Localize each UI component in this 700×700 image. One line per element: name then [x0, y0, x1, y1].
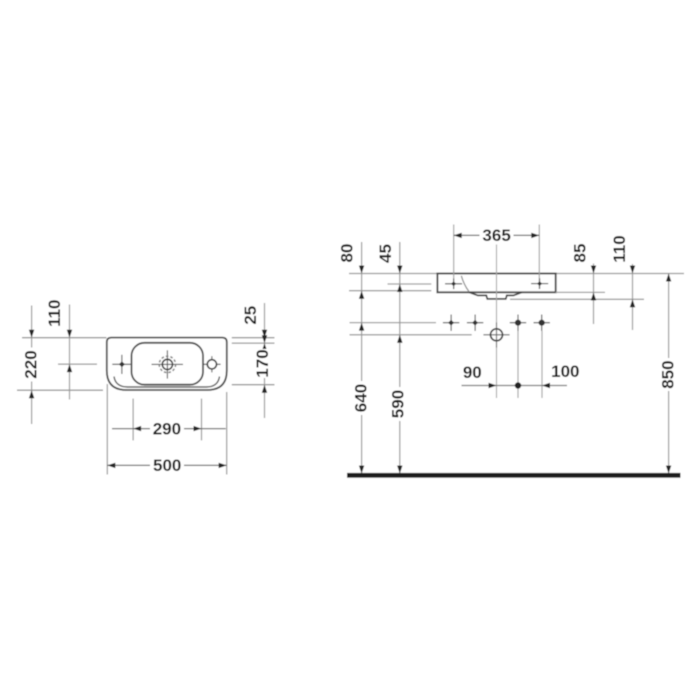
- svg-text:25: 25: [241, 306, 260, 325]
- svg-text:290: 290: [153, 419, 181, 438]
- fixing crosshair 1 row: [443, 315, 459, 331]
- svg-text:590: 590: [389, 390, 408, 418]
- fixing crosshair 3 row with dot: [510, 315, 526, 331]
- wire extension line y=284: [388, 283, 432, 285]
- dimension 85 line: [571, 244, 597, 324]
- dimension 25 and 170 line: [241, 303, 272, 418]
- dimension 290: [112, 399, 226, 441]
- dimension 90 and 100: [462, 362, 580, 388]
- left fixing mark plan: [112, 355, 131, 374]
- dimension 365: [454, 226, 540, 245]
- sink front edge inner parallel line: [114, 377, 220, 388]
- basin inner rounded rectangle: [132, 343, 204, 385]
- floor line: [347, 473, 681, 478]
- wire extension vertical left from 365 dim: [453, 225, 455, 290]
- dimension 80 and 640 line: [337, 242, 370, 474]
- svg-text:45: 45: [376, 244, 395, 263]
- wire extension vertical below crosshair 4: [541, 331, 543, 398]
- wire extension line right of body y=292.4: [556, 291, 605, 293]
- fixing crosshair 2 row: [467, 315, 483, 331]
- svg-text:500: 500: [153, 456, 181, 475]
- svg-text:110: 110: [45, 299, 64, 326]
- wire extension vertical below crosshair 3: [517, 331, 519, 398]
- svg-text:170: 170: [253, 349, 272, 377]
- wire extension line bowl bottom y=299.3: [510, 298, 644, 300]
- wire extension line right of plan y=385: [232, 384, 275, 386]
- sink body elevation rectangle: [437, 274, 555, 293]
- dimension 45 and 590 line: [376, 242, 408, 474]
- fixing crosshair 4 row with dot: [534, 315, 550, 331]
- svg-text:85: 85: [571, 244, 590, 263]
- drain bowl under body: [469, 292, 522, 299]
- basin hidden diagonal inside body: [461, 276, 469, 292]
- wire extension line bottom-left y=390: [17, 389, 103, 391]
- drain hole circle: [483, 322, 509, 347]
- svg-text:850: 850: [658, 360, 677, 388]
- dimension 220 line: [21, 306, 40, 425]
- upper crosshair right in body: [531, 278, 548, 289]
- svg-text:220: 220: [21, 350, 40, 378]
- svg-text:110: 110: [610, 235, 629, 262]
- wire extension line y=290.7: [349, 290, 431, 292]
- svg-text:80: 80: [337, 244, 356, 263]
- svg-text:90: 90: [463, 363, 482, 382]
- wire drain centerline: [496, 244, 498, 398]
- dimension 850 line: [658, 274, 677, 474]
- wire extension line hole centerline left y=364: [58, 363, 97, 365]
- svg-text:365: 365: [482, 226, 510, 245]
- sink outline plan: [107, 338, 227, 390]
- right hole mark plan: [203, 356, 220, 372]
- wire extension line right of plan y=338: [232, 337, 275, 339]
- dimension 110 line: [45, 299, 72, 399]
- wire extension line fixing row y=322.6: [350, 322, 437, 324]
- wire top extension line y=273.5: [349, 273, 684, 275]
- wire extension line top-left y=338: [22, 337, 107, 339]
- wire extension line right of plan y=343: [232, 342, 275, 344]
- faucet hole crosshair plan: [152, 350, 184, 378]
- upper crosshair left in body: [445, 279, 462, 290]
- dimension 500: [107, 384, 226, 475]
- wire extension vertical right from 365 dim: [538, 225, 540, 290]
- dimension 110 right line: [610, 235, 635, 330]
- wire extension line drain level y=334.8: [350, 334, 472, 336]
- svg-text:640: 640: [351, 384, 370, 412]
- svg-text:100: 100: [551, 362, 579, 381]
